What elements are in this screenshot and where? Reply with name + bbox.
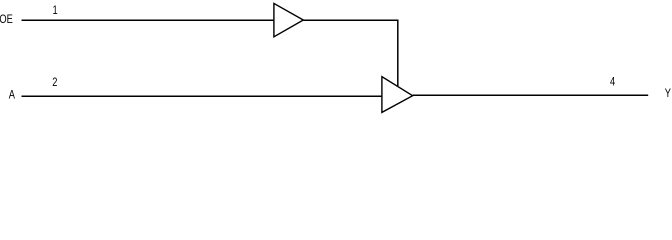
svg-text:2: 2: [52, 76, 57, 90]
svg-text:OE: OE: [0, 13, 13, 27]
svg-text:1: 1: [53, 4, 58, 18]
svg-text:4: 4: [610, 76, 615, 90]
svg-text:Y: Y: [665, 87, 672, 101]
svg-text:A: A: [9, 89, 16, 103]
